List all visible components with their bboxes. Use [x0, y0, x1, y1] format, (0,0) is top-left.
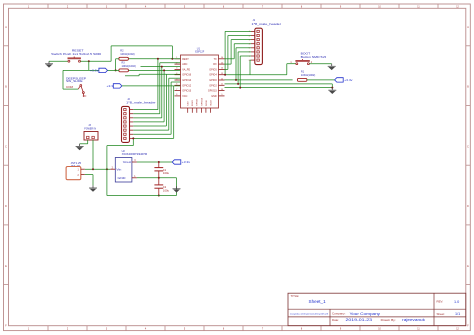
svg-text:8: 8: [176, 94, 177, 96]
svg-text:7: 7: [176, 89, 177, 91]
svg-text:5: 5: [176, 78, 177, 80]
svg-text:1*8_male_header: 1*8_male_header: [252, 22, 282, 26]
svg-text:GPIO2: GPIO2: [209, 84, 217, 87]
svg-text:13: 13: [221, 73, 223, 75]
svg-text:rajeevanuk: rajeevanuk: [402, 317, 425, 322]
svg-text:COM: COM: [66, 86, 73, 89]
svg-text:ADC: ADC: [182, 63, 187, 66]
svg-text:Sheet_1: Sheet_1: [309, 299, 327, 304]
svg-text:9: 9: [221, 94, 222, 96]
svg-text:+3.3v: +3.3v: [90, 68, 99, 72]
svg-text:Vin: Vin: [116, 167, 121, 171]
svg-text:REV:: REV:: [437, 299, 444, 303]
svg-text:15: 15: [221, 62, 223, 64]
svg-text:GPIO0: GPIO0: [209, 79, 217, 82]
svg-text:GND: GND: [211, 95, 217, 98]
svg-text:Company:: Company:: [332, 312, 346, 316]
svg-text:VCC: VCC: [182, 95, 187, 98]
svg-text:6: 6: [176, 84, 177, 86]
svg-text:1*8_male_header: 1*8_male_header: [126, 101, 156, 105]
svg-text:Drawn By:: Drawn By:: [381, 318, 396, 322]
svg-text:MISO: MISO: [192, 100, 194, 106]
svg-text:100u: 100u: [163, 190, 170, 193]
svg-text:Your Company: Your Company: [350, 311, 381, 316]
svg-text:100u: 100u: [163, 172, 170, 175]
svg-text:RESET: RESET: [72, 48, 84, 52]
svg-text:10KΩ(1002): 10KΩ(1002): [120, 52, 135, 56]
svg-text:SCLK: SCLK: [210, 100, 212, 106]
svg-text:GPIO5: GPIO5: [209, 68, 217, 71]
svg-text:GPIO13: GPIO13: [182, 90, 191, 93]
svg-text:GPIO10: GPIO10: [201, 97, 203, 106]
svg-text:Vout: Vout: [123, 160, 131, 164]
svg-text:easyeda.com/rajeevanuk/esp12f-: easyeda.com/rajeevanuk/esp12f-wifi: [290, 312, 329, 315]
svg-text:VA_PD: VA_PD: [182, 68, 190, 71]
svg-text:XC6206P332PR: XC6206P332PR: [122, 152, 148, 156]
svg-text:10KΩ(1002): 10KΩ(1002): [301, 73, 316, 77]
svg-text:12: 12: [221, 78, 223, 80]
svg-text:1.0: 1.0: [454, 300, 459, 304]
svg-text:TITLE:: TITLE:: [291, 294, 300, 298]
svg-text:10: 10: [221, 89, 223, 91]
svg-text:NO: NO: [83, 96, 87, 98]
svg-text:+3.3v: +3.3v: [344, 78, 353, 82]
svg-text:Sheet:: Sheet:: [437, 312, 446, 316]
svg-text:Date:: Date:: [332, 318, 339, 322]
svg-text:10KΩ(1002): 10KΩ(1002): [122, 64, 137, 68]
svg-text:11: 11: [221, 84, 223, 86]
svg-text:SW_SLIDE: SW_SLIDE: [66, 79, 83, 83]
svg-text:MOSI: MOSI: [206, 100, 208, 106]
svg-text:Button SMD 5x5: Button SMD 5x5: [301, 55, 327, 59]
svg-text:GPIO14: GPIO14: [182, 79, 191, 82]
svg-text:+3.3v: +3.3v: [182, 160, 191, 164]
svg-text:RX: RX: [213, 63, 217, 66]
svg-text:GPIO12: GPIO12: [182, 84, 191, 87]
svg-text:14: 14: [221, 68, 223, 70]
svg-text:3: 3: [176, 68, 177, 70]
svg-text:GPIO15: GPIO15: [208, 90, 217, 93]
svg-text:ESP12F: ESP12F: [195, 50, 204, 54]
svg-text:POWER IN: POWER IN: [84, 128, 96, 131]
svg-text:GND: GND: [118, 176, 126, 180]
svg-text:1/1: 1/1: [455, 312, 460, 316]
svg-text:GPIO9: GPIO9: [197, 98, 199, 105]
svg-text:GPIO16: GPIO16: [182, 74, 191, 77]
svg-text:GPIO4: GPIO4: [209, 74, 217, 77]
svg-text:TX: TX: [214, 58, 217, 61]
svg-text:16: 16: [221, 57, 223, 59]
svg-text:2019-01-23: 2019-01-23: [346, 317, 373, 322]
svg-text:Switch Push 1x1 5x6x2.5 SMD: Switch Push 1x1 5x6x2.5 SMD: [51, 52, 101, 56]
svg-text:REST: REST: [182, 58, 189, 61]
